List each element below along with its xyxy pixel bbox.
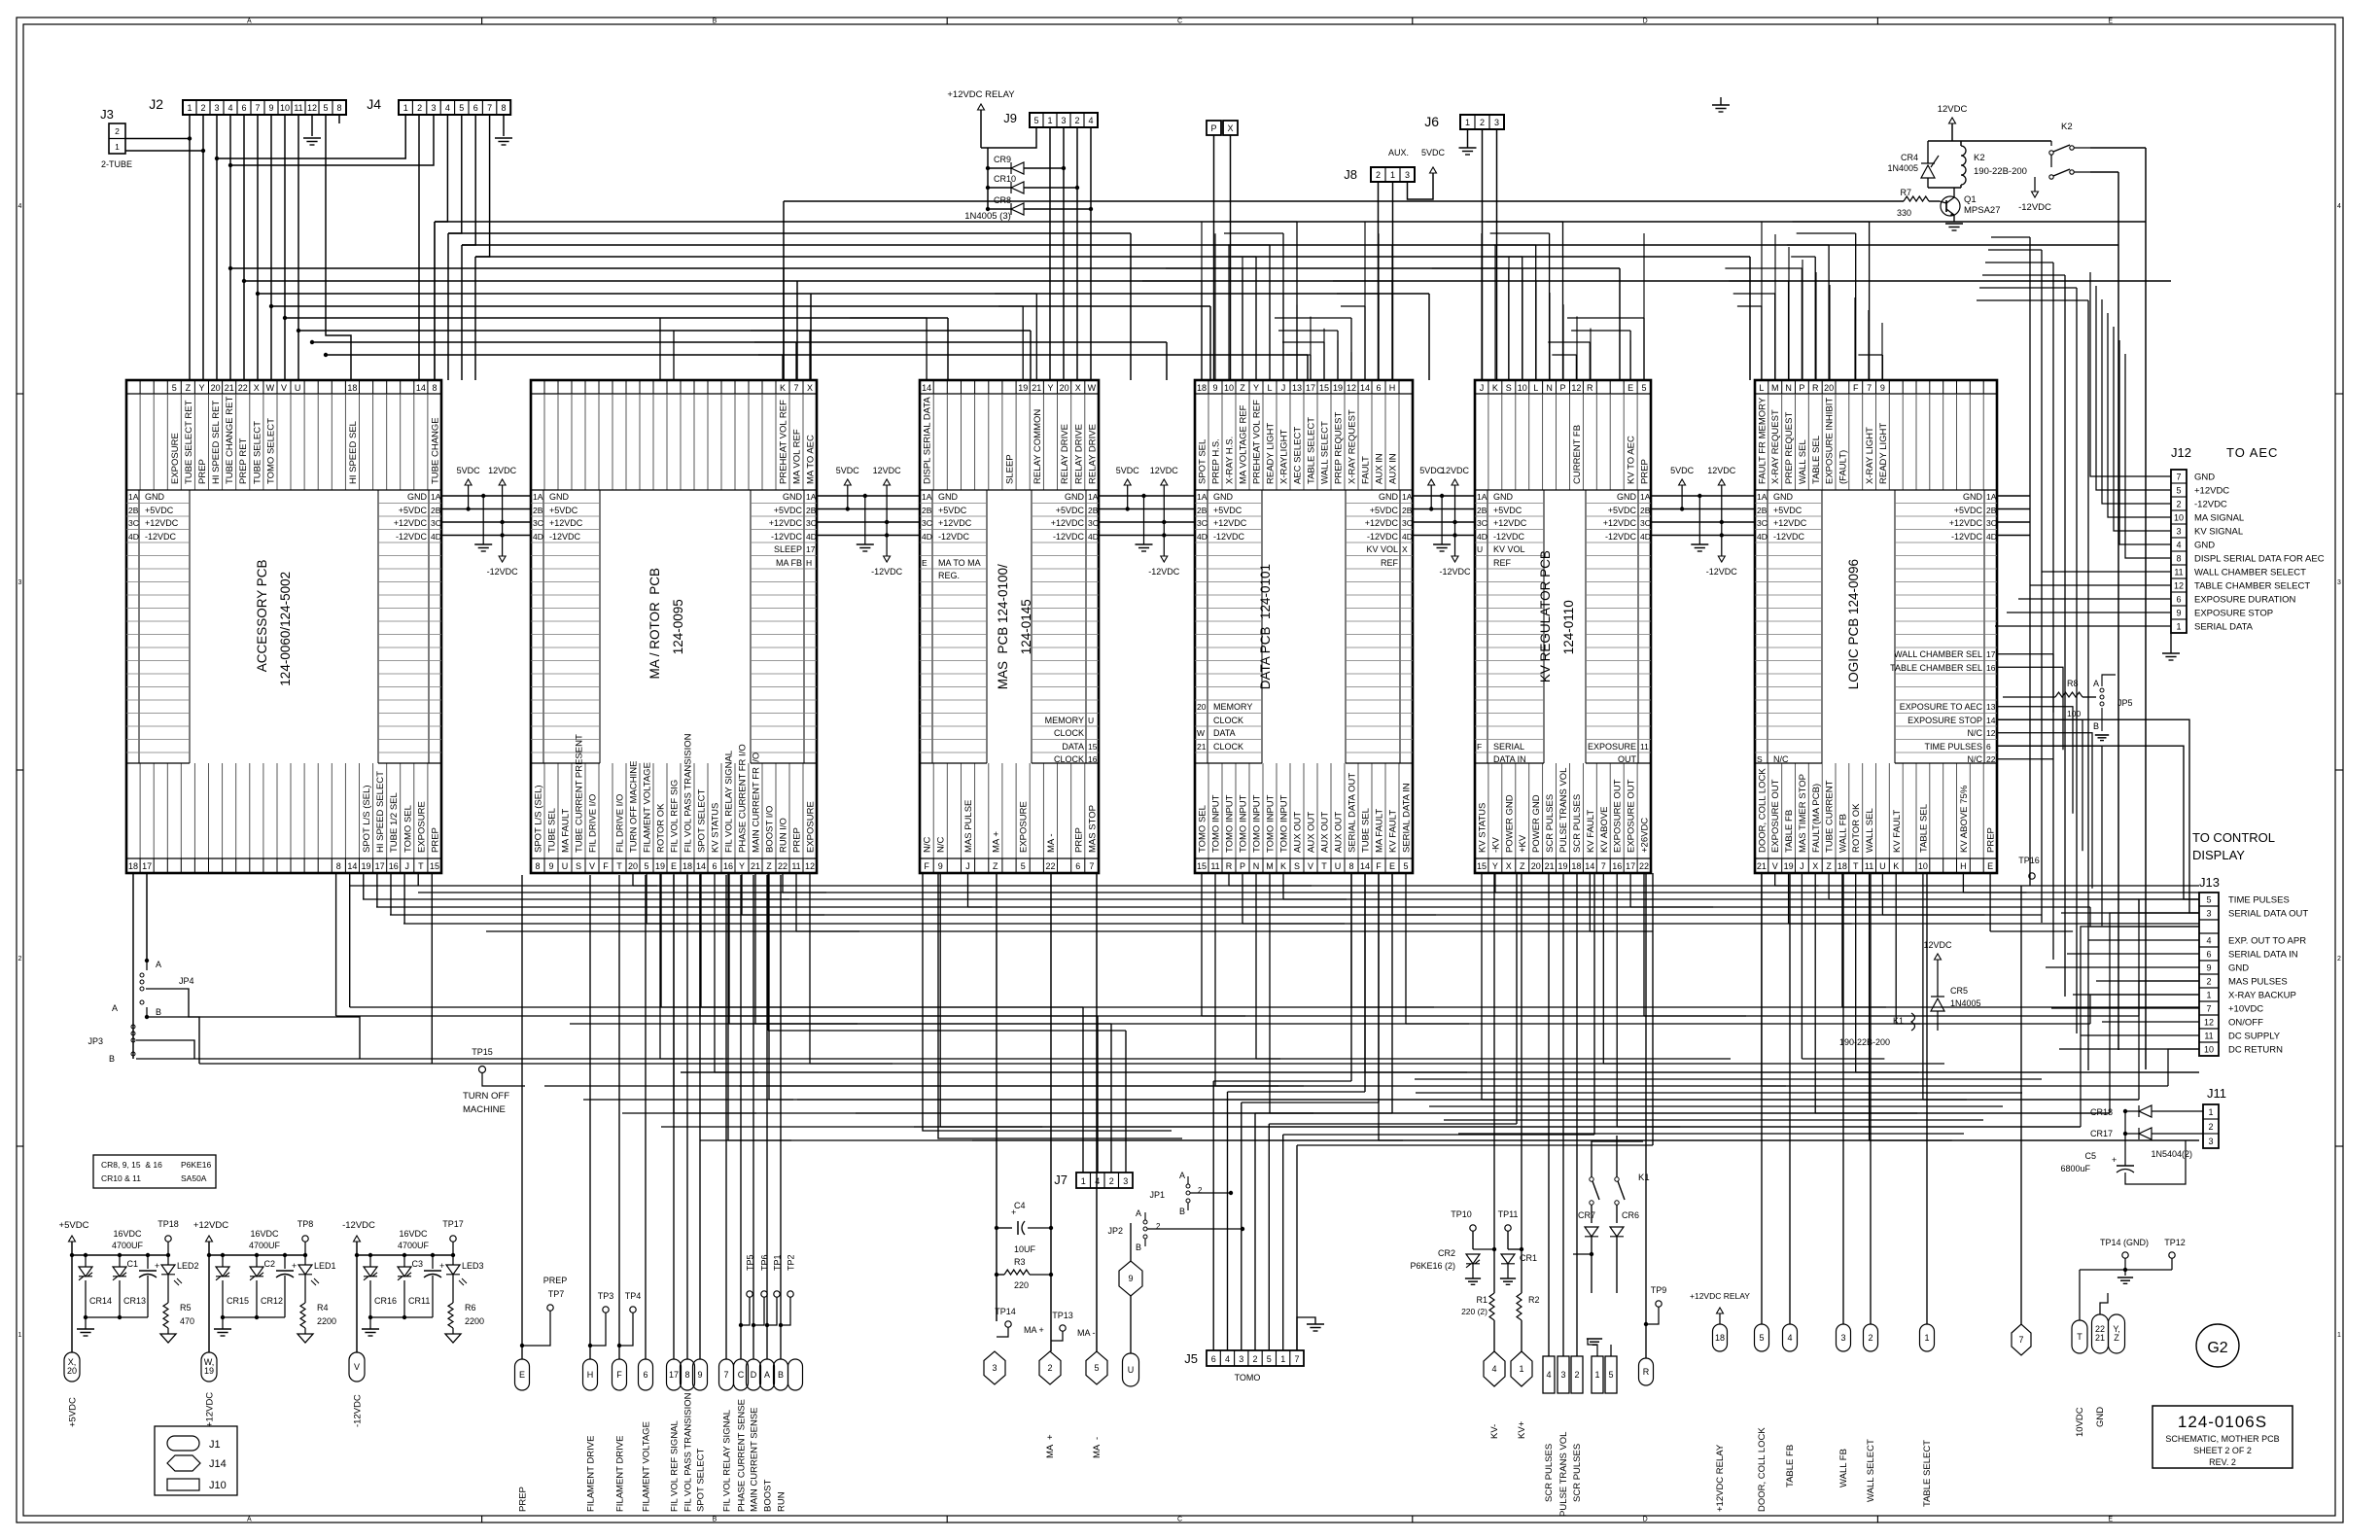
- svg-text:4: 4: [445, 103, 450, 113]
- svg-text:CR8: CR8: [994, 195, 1011, 205]
- svg-text:3: 3: [431, 103, 436, 113]
- svg-text:12: 12: [805, 861, 815, 871]
- svg-text:CR8, 9, 15 & 16: CR8, 9, 15 & 16: [101, 1160, 162, 1170]
- svg-text:H: H: [1960, 861, 1967, 871]
- svg-text:U: U: [1477, 544, 1483, 554]
- svg-text:TP14 (GND): TP14 (GND): [2100, 1238, 2149, 1247]
- svg-text:FILAMENT DRIVE: FILAMENT DRIVE: [615, 1436, 626, 1512]
- svg-text:B: B: [713, 18, 717, 25]
- svg-text:P: P: [1559, 383, 1565, 393]
- svg-text:10VDC: 10VDC: [2075, 1407, 2085, 1437]
- svg-text:12VDC: 12VDC: [488, 466, 517, 475]
- svg-text:AUX OUT: AUX OUT: [1307, 812, 1317, 853]
- svg-text:A: A: [2093, 679, 2099, 688]
- svg-text:4: 4: [2206, 936, 2211, 946]
- svg-text:CR2: CR2: [1438, 1248, 1455, 1258]
- svg-text:ACCESSORY PCB: ACCESSORY PCB: [255, 560, 269, 673]
- svg-text:7: 7: [255, 103, 260, 113]
- svg-text:SA50A: SA50A: [181, 1173, 207, 1183]
- svg-text:-KV: -KV: [1490, 837, 1501, 854]
- svg-text:U: U: [1088, 716, 1094, 725]
- svg-text:6: 6: [712, 861, 717, 871]
- svg-text:3C: 3C: [1477, 518, 1487, 528]
- svg-text:LED1: LED1: [314, 1261, 336, 1271]
- svg-text:16: 16: [723, 861, 733, 871]
- svg-text:SCR PULSES: SCR PULSES: [1572, 794, 1583, 853]
- svg-text:+12VDC RELAY: +12VDC RELAY: [1690, 1291, 1750, 1301]
- svg-text:GND: GND: [1213, 492, 1234, 502]
- svg-text:Y: Y: [739, 861, 745, 871]
- svg-text:15: 15: [1088, 742, 1098, 752]
- svg-text:FIL DRIVE I/O: FIL DRIVE I/O: [615, 794, 626, 853]
- svg-text:3C: 3C: [1986, 518, 1997, 528]
- svg-text:LED3: LED3: [462, 1261, 484, 1271]
- svg-text:GND: GND: [1493, 492, 1514, 502]
- svg-text:7: 7: [2206, 1004, 2211, 1014]
- svg-text:PREP: PREP: [431, 827, 441, 853]
- svg-text:5: 5: [1759, 1333, 1764, 1343]
- svg-text:DC SUPPLY: DC SUPPLY: [2228, 1032, 2281, 1042]
- svg-text:+: +: [292, 1261, 297, 1271]
- svg-text:2B: 2B: [1757, 506, 1767, 515]
- svg-text:+12VDC: +12VDC: [1949, 518, 1983, 528]
- svg-text:AUX IN: AUX IN: [1375, 453, 1385, 484]
- svg-text:14: 14: [416, 383, 426, 393]
- svg-text:FIL VOL PASS TRANSISION: FIL VOL PASS TRANSISION: [683, 1392, 694, 1512]
- svg-text:TP12: TP12: [2164, 1238, 2186, 1247]
- svg-text:17: 17: [1986, 649, 1996, 659]
- svg-text:F: F: [1477, 742, 1482, 752]
- svg-text:ON/OFF: ON/OFF: [2228, 1018, 2263, 1029]
- svg-text:18: 18: [1837, 861, 1847, 871]
- svg-text:2: 2: [1109, 1176, 1114, 1186]
- svg-text:-12VDC: -12VDC: [145, 532, 177, 542]
- svg-text:1A: 1A: [1197, 492, 1207, 502]
- svg-text:TUBE CHANGE RET: TUBE CHANGE RET: [225, 397, 235, 484]
- svg-text:GND: GND: [1379, 492, 1399, 502]
- svg-text:2B: 2B: [1640, 506, 1651, 515]
- svg-text:2B: 2B: [1197, 506, 1207, 515]
- svg-text:4700UF: 4700UF: [112, 1241, 144, 1250]
- svg-text:MA VOL REF: MA VOL REF: [792, 429, 803, 484]
- svg-text:JP3: JP3: [87, 1036, 103, 1046]
- svg-text:1N4005 (3): 1N4005 (3): [964, 211, 1011, 222]
- svg-text:CR12: CR12: [261, 1296, 283, 1306]
- svg-text:20: 20: [211, 383, 221, 393]
- svg-text:4D: 4D: [128, 532, 139, 542]
- svg-text:1: 1: [115, 142, 120, 152]
- svg-text:1: 1: [1594, 1370, 1599, 1380]
- svg-text:WALL FB: WALL FB: [1838, 1449, 1849, 1487]
- svg-text:X-RAY H.S.: X-RAY H.S.: [1225, 437, 1236, 484]
- svg-text:3C: 3C: [533, 518, 543, 528]
- svg-text:B: B: [1179, 1207, 1185, 1216]
- svg-text:4D: 4D: [1477, 532, 1487, 542]
- svg-text:19: 19: [1018, 383, 1028, 393]
- svg-text:DISPL SERIAL DATA: DISPL SERIAL DATA: [923, 397, 933, 484]
- svg-text:BOOST: BOOST: [763, 1480, 774, 1512]
- svg-text:TABLE SEL: TABLE SEL: [1918, 804, 1929, 853]
- svg-text:3: 3: [1061, 116, 1066, 125]
- svg-text:1A: 1A: [1757, 492, 1767, 502]
- svg-text:K1: K1: [1638, 1172, 1650, 1183]
- svg-text:X: X: [254, 383, 260, 393]
- svg-text:3C: 3C: [1640, 518, 1651, 528]
- svg-text:BOOST I/O: BOOST I/O: [765, 806, 776, 853]
- svg-text:12: 12: [2174, 581, 2184, 591]
- svg-text:TP2: TP2: [787, 1254, 796, 1271]
- svg-text:2B: 2B: [1986, 506, 1997, 515]
- svg-text:R5: R5: [180, 1303, 192, 1312]
- svg-text:JP2: JP2: [1107, 1226, 1123, 1236]
- svg-text:TP7: TP7: [548, 1289, 565, 1299]
- svg-text:N: N: [1546, 383, 1553, 393]
- svg-text:Y: Y: [198, 383, 204, 393]
- svg-text:D: D: [1643, 1517, 1648, 1523]
- svg-text:SERIAL DATA IN: SERIAL DATA IN: [1402, 783, 1413, 853]
- svg-text:+12VDC RELAY: +12VDC RELAY: [947, 89, 1015, 100]
- svg-text:TO AEC: TO AEC: [2226, 445, 2278, 460]
- svg-text:GND: GND: [2095, 1407, 2106, 1427]
- svg-text:TP15: TP15: [472, 1047, 493, 1057]
- svg-text:REG.: REG.: [938, 571, 960, 580]
- svg-text:CR1: CR1: [1520, 1253, 1537, 1263]
- svg-text:RUN I/O: RUN I/O: [779, 818, 789, 853]
- svg-text:J6: J6: [1424, 114, 1439, 129]
- svg-text:+12VDC: +12VDC: [938, 518, 972, 528]
- svg-text:TP16: TP16: [2018, 856, 2040, 865]
- svg-text:TOMO: TOMO: [1235, 1373, 1261, 1382]
- svg-text:12: 12: [1986, 728, 1996, 738]
- svg-text:J1: J1: [209, 1439, 221, 1451]
- svg-text:CR7: CR7: [1578, 1210, 1595, 1220]
- svg-text:TUBE SEL: TUBE SEL: [1361, 808, 1372, 853]
- svg-text:-12VDC: -12VDC: [1706, 567, 1738, 577]
- svg-text:CR5: CR5: [1950, 986, 1968, 996]
- svg-text:-12VDC: -12VDC: [2018, 202, 2051, 213]
- svg-text:T: T: [1321, 861, 1327, 871]
- svg-text:TUBE CURRENT PRESENT: TUBE CURRENT PRESENT: [575, 734, 585, 853]
- svg-text:TP5: TP5: [746, 1254, 755, 1271]
- svg-text:E: E: [922, 558, 927, 568]
- svg-text:F: F: [1376, 861, 1382, 871]
- svg-text:3: 3: [1494, 118, 1499, 127]
- svg-text:KV STATUS: KV STATUS: [1478, 803, 1488, 853]
- svg-text:CR9: CR9: [994, 155, 1011, 164]
- svg-text:3: 3: [1123, 1176, 1128, 1186]
- svg-text:-12VDC: -12VDC: [396, 532, 428, 542]
- svg-text:20: 20: [67, 1366, 77, 1376]
- svg-text:POWER GND: POWER GND: [1504, 794, 1515, 853]
- svg-text:SPOT SELECT: SPOT SELECT: [696, 1449, 707, 1512]
- svg-text:GND: GND: [145, 492, 165, 502]
- svg-text:DISPLAY: DISPLAY: [2192, 848, 2245, 862]
- svg-text:P: P: [1240, 861, 1245, 871]
- svg-text:DATA: DATA: [1213, 728, 1236, 738]
- svg-text:KV TO AEC: KV TO AEC: [1627, 436, 1637, 484]
- svg-text:-12VDC: -12VDC: [1951, 532, 1983, 542]
- svg-text:N/C: N/C: [1968, 728, 1983, 738]
- svg-text:12VDC: 12VDC: [873, 466, 902, 475]
- svg-text:E: E: [671, 861, 677, 871]
- svg-text:W: W: [1088, 383, 1097, 393]
- svg-text:14: 14: [1360, 861, 1370, 871]
- svg-text:GND: GND: [2228, 963, 2249, 974]
- svg-text:B: B: [1136, 1242, 1141, 1252]
- svg-text:1A: 1A: [1477, 492, 1487, 502]
- svg-text:7: 7: [793, 383, 798, 393]
- svg-text:MAS TIMER STOP: MAS TIMER STOP: [1798, 774, 1808, 853]
- svg-text:TP11: TP11: [1498, 1209, 1519, 1219]
- svg-text:MA TO MA: MA TO MA: [938, 558, 981, 568]
- svg-text:+5VDC: +5VDC: [1608, 506, 1637, 515]
- svg-text:R7: R7: [1900, 188, 1911, 197]
- svg-text:-12VDC: -12VDC: [549, 532, 581, 542]
- svg-text:C2: C2: [263, 1259, 275, 1269]
- svg-text:4D: 4D: [806, 532, 817, 542]
- svg-text:B: B: [713, 1517, 717, 1523]
- svg-text:3: 3: [1840, 1333, 1845, 1343]
- svg-text:R2: R2: [1528, 1295, 1540, 1305]
- svg-text:3C: 3C: [128, 518, 139, 528]
- svg-text:ROTOR OK: ROTOR OK: [1851, 803, 1862, 853]
- svg-text:PREP REQUEST: PREP REQUEST: [1334, 412, 1345, 484]
- svg-text:RUN: RUN: [777, 1491, 787, 1512]
- svg-text:+: +: [439, 1261, 444, 1271]
- svg-text:18: 18: [682, 861, 692, 871]
- svg-text:PREP H.S.: PREP H.S.: [1211, 438, 1222, 484]
- svg-text:14: 14: [922, 383, 931, 393]
- svg-text:TP1: TP1: [773, 1254, 783, 1271]
- svg-text:J: J: [1281, 383, 1286, 393]
- svg-text:1A: 1A: [1986, 492, 1997, 502]
- svg-text:X-RAY REQUEST: X-RAY REQUEST: [1770, 409, 1781, 484]
- svg-text:PULSE TRANS VOL: PULSE TRANS VOL: [1558, 768, 1569, 853]
- svg-text:4D: 4D: [533, 532, 543, 542]
- svg-text:B: B: [778, 1370, 784, 1380]
- svg-text:18: 18: [1197, 383, 1207, 393]
- svg-text:6: 6: [643, 1370, 647, 1380]
- svg-text:TP17: TP17: [442, 1219, 464, 1229]
- svg-text:EXPOSURE TO AEC: EXPOSURE TO AEC: [1900, 702, 1983, 712]
- svg-text:2: 2: [18, 956, 22, 962]
- svg-text:EXP. OUT TO APR: EXP. OUT TO APR: [2228, 936, 2306, 947]
- svg-text:10: 10: [2174, 513, 2184, 523]
- svg-text:B: B: [156, 1007, 161, 1017]
- svg-text:9: 9: [548, 861, 553, 871]
- svg-text:2B: 2B: [922, 506, 932, 515]
- svg-text:2B: 2B: [1477, 506, 1487, 515]
- svg-text:4700UF: 4700UF: [249, 1241, 281, 1250]
- svg-text:T: T: [1853, 861, 1859, 871]
- svg-text:SPOT L/S (SEL): SPOT L/S (SEL): [534, 785, 544, 853]
- svg-text:3C: 3C: [431, 518, 441, 528]
- svg-text:14: 14: [696, 861, 706, 871]
- svg-text:2: 2: [1868, 1333, 1872, 1343]
- svg-text:L: L: [1533, 383, 1538, 393]
- svg-text:+: +: [2112, 1155, 2117, 1165]
- svg-text:DATA: DATA: [1062, 742, 1084, 752]
- svg-text:FIL DRIVE I/O: FIL DRIVE I/O: [588, 794, 599, 853]
- svg-text:X-RAY LIGHT: X-RAY LIGHT: [1865, 427, 1875, 484]
- svg-text:5: 5: [1094, 1363, 1099, 1373]
- svg-text:CLOCK: CLOCK: [1213, 742, 1243, 752]
- svg-text:CR6: CR6: [1622, 1210, 1639, 1220]
- svg-text:11: 11: [1640, 742, 1649, 752]
- svg-text:D: D: [1643, 18, 1648, 25]
- svg-text:1A: 1A: [533, 492, 543, 502]
- svg-text:MA -: MA -: [1092, 1437, 1102, 1458]
- svg-text:12VDC: 12VDC: [1441, 466, 1470, 475]
- svg-text:J3: J3: [100, 107, 114, 122]
- svg-text:1A: 1A: [128, 492, 139, 502]
- svg-text:S: S: [1506, 383, 1512, 393]
- svg-text:5: 5: [323, 103, 328, 113]
- svg-text:21: 21: [1032, 383, 1041, 393]
- svg-text:X: X: [1812, 861, 1818, 871]
- svg-text:E: E: [1389, 861, 1395, 871]
- svg-text:22: 22: [1045, 861, 1055, 871]
- svg-text:2B: 2B: [1088, 506, 1099, 515]
- svg-text:+5VDC: +5VDC: [1370, 506, 1399, 515]
- svg-text:3C: 3C: [806, 518, 817, 528]
- svg-text:C5: C5: [2084, 1151, 2096, 1161]
- svg-text:8: 8: [535, 861, 540, 871]
- svg-text:4D: 4D: [1402, 532, 1413, 542]
- svg-text:FAULT FR MEMORY: FAULT FR MEMORY: [1757, 397, 1767, 484]
- svg-text:T: T: [418, 861, 424, 871]
- svg-text:3C: 3C: [1088, 518, 1099, 528]
- svg-text:V: V: [354, 1362, 360, 1372]
- svg-text:-12VDC: -12VDC: [1148, 567, 1180, 577]
- svg-text:190-22B-200: 190-22B-200: [1974, 166, 2027, 177]
- svg-text:220 (2): 220 (2): [1461, 1307, 1487, 1316]
- svg-text:GND: GND: [549, 492, 570, 502]
- svg-text:SPOT SELECT: SPOT SELECT: [697, 789, 708, 853]
- svg-text:N: N: [1785, 383, 1792, 393]
- svg-text:TABLE SELECT: TABLE SELECT: [1922, 1440, 1933, 1507]
- svg-text:1A: 1A: [431, 492, 441, 502]
- svg-text:14: 14: [1585, 861, 1594, 871]
- svg-text:21: 21: [1197, 742, 1207, 752]
- svg-text:5: 5: [1403, 861, 1408, 871]
- svg-text:J: J: [1800, 861, 1804, 871]
- svg-text:SCR PULSES: SCR PULSES: [1572, 1444, 1583, 1502]
- svg-text:PREP: PREP: [1640, 459, 1651, 484]
- svg-text:V: V: [1308, 861, 1313, 871]
- svg-text:3: 3: [2206, 909, 2211, 919]
- svg-text:X: X: [1227, 123, 1233, 133]
- svg-text:1: 1: [1390, 170, 1395, 180]
- svg-text:18: 18: [128, 861, 138, 871]
- svg-text:2B: 2B: [1402, 506, 1413, 515]
- svg-text:+5VDC: +5VDC: [59, 1220, 89, 1231]
- svg-text:RELAY DRIVE: RELAY DRIVE: [1073, 424, 1084, 484]
- svg-text:8: 8: [684, 1370, 689, 1380]
- svg-text:124-0110: 124-0110: [1561, 600, 1576, 654]
- svg-text:2: 2: [1156, 1222, 1161, 1231]
- svg-text:KV+: KV+: [1517, 1420, 1527, 1439]
- svg-text:N: N: [1253, 861, 1260, 871]
- svg-text:WALL SEL: WALL SEL: [1798, 439, 1808, 484]
- svg-text:J7: J7: [1054, 1172, 1067, 1187]
- svg-text:6: 6: [2176, 595, 2181, 605]
- svg-text:MA FAULT: MA FAULT: [1375, 809, 1385, 853]
- svg-text:X: X: [807, 383, 813, 393]
- svg-text:HI SPEED SELECT: HI SPEED SELECT: [375, 771, 386, 853]
- svg-text:3: 3: [2337, 579, 2341, 586]
- svg-text:SERIAL DATA: SERIAL DATA: [2194, 622, 2254, 633]
- svg-text:AUX OUT: AUX OUT: [1293, 812, 1304, 853]
- svg-text:J: J: [405, 861, 410, 871]
- svg-text:FIL VOL REF SIGNAL: FIL VOL REF SIGNAL: [670, 1420, 681, 1512]
- svg-text:A: A: [1136, 1208, 1141, 1218]
- svg-text:GND: GND: [938, 492, 959, 502]
- svg-text:AUX.: AUX.: [1388, 148, 1409, 157]
- svg-text:MA -: MA -: [1077, 1328, 1096, 1338]
- svg-text:EXPOSURE OUT: EXPOSURE OUT: [1613, 779, 1624, 853]
- svg-text:CR16: CR16: [374, 1296, 397, 1306]
- svg-text:EXPOSURE INHIBIT: EXPOSURE INHIBIT: [1825, 398, 1836, 484]
- svg-text:MAS PULSES: MAS PULSES: [2228, 977, 2288, 988]
- svg-text:19: 19: [361, 861, 370, 871]
- svg-text:KV-: KV-: [1489, 1424, 1500, 1439]
- svg-text:CR10 & 11: CR10 & 11: [101, 1173, 141, 1183]
- svg-text:SERIAL DATA IN: SERIAL DATA IN: [2228, 950, 2298, 961]
- svg-text:1: 1: [1280, 1354, 1285, 1364]
- svg-text:TURN OFF MACHINE: TURN OFF MACHINE: [629, 761, 640, 853]
- svg-text:MA FB: MA FB: [776, 558, 802, 568]
- svg-text:+12VDC: +12VDC: [145, 518, 179, 528]
- svg-text:7: 7: [2018, 1335, 2023, 1345]
- svg-text:N/C: N/C: [923, 837, 933, 854]
- svg-text:A: A: [112, 1003, 118, 1013]
- svg-text:+5VDC: +5VDC: [399, 506, 428, 515]
- svg-text:U: U: [562, 861, 569, 871]
- svg-text:J12: J12: [2171, 445, 2191, 460]
- svg-text:EXPOSURE: EXPOSURE: [1019, 801, 1030, 853]
- svg-text:4D: 4D: [922, 532, 932, 542]
- svg-text:+5VDC: +5VDC: [1056, 506, 1085, 515]
- svg-text:READY LIGHT: READY LIGHT: [1266, 423, 1277, 484]
- svg-text:4: 4: [227, 103, 232, 113]
- svg-text:+: +: [155, 1261, 159, 1271]
- svg-text:PHASE CURRENT FR I/O: PHASE CURRENT FR I/O: [738, 744, 749, 853]
- svg-text:17: 17: [1626, 861, 1635, 871]
- svg-text:R: R: [1643, 1367, 1650, 1377]
- svg-text:20: 20: [1060, 383, 1069, 393]
- svg-text:5VDC: 5VDC: [1421, 148, 1446, 157]
- svg-text:E: E: [2108, 18, 2113, 25]
- svg-text:AUX IN: AUX IN: [1388, 453, 1399, 484]
- svg-text:2: 2: [1198, 1186, 1203, 1195]
- svg-text:-12VDC: -12VDC: [342, 1220, 375, 1231]
- svg-text:WALL CHAMBER SELECT: WALL CHAMBER SELECT: [2194, 568, 2306, 578]
- svg-text:(FAULT): (FAULT): [1837, 450, 1848, 484]
- svg-text:SCR PULSES: SCR PULSES: [1545, 794, 1556, 853]
- svg-text:C: C: [1177, 18, 1182, 25]
- svg-text:+12VDC RELAY: +12VDC RELAY: [1715, 1444, 1726, 1512]
- svg-text:1: 1: [187, 103, 192, 113]
- svg-text:20: 20: [1531, 861, 1541, 871]
- svg-text:CR4: CR4: [1901, 153, 1918, 162]
- svg-text:1: 1: [1047, 116, 1052, 125]
- svg-text:4D: 4D: [1088, 532, 1099, 542]
- svg-text:K: K: [1280, 861, 1286, 871]
- svg-text:J11: J11: [2207, 1086, 2226, 1101]
- svg-text:4: 4: [2337, 203, 2341, 210]
- svg-text:A: A: [247, 18, 252, 25]
